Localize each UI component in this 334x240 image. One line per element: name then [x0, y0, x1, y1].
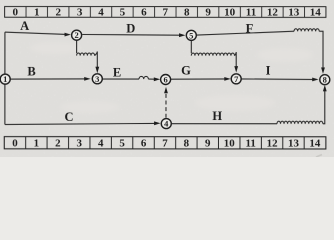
node 7: [231, 74, 241, 84]
arrowhead B into node 3: [84, 77, 90, 81]
dummy dashed from node 4 up to node 6: [165, 91, 167, 118]
svg-text:2: 2: [74, 30, 78, 40]
wire: activity I from node 7 to node 8: [242, 78, 314, 81]
svg-text:I: I: [266, 64, 271, 78]
float wave on activity E: [139, 76, 148, 79]
svg-text:5: 5: [119, 138, 125, 150]
svg-text:12: 12: [267, 138, 279, 150]
svg-text:A: A: [20, 19, 29, 33]
svg-text:E: E: [113, 65, 121, 79]
svg-text:8: 8: [323, 75, 327, 85]
wire: left vertical from node 1 up to activity A level and down to activity C level: [4, 32, 6, 124]
page corner mark bottom right: [316, 155, 322, 158]
svg-text:6: 6: [141, 7, 147, 19]
float wave from node 5 toward node 7: [191, 53, 234, 56]
svg-text:C: C: [64, 110, 73, 124]
arrowhead F down into node 8: [321, 67, 325, 73]
wire: float drop from node 5: [190, 41, 192, 54]
svg-text:2: 2: [55, 7, 61, 19]
svg-text:14: 14: [310, 7, 322, 19]
node 1: [0, 74, 10, 84]
svg-text:2: 2: [55, 138, 61, 150]
wire: activity E tail into node 6: [148, 78, 155, 80]
float wave on activity H: [277, 121, 323, 124]
svg-text:H: H: [212, 109, 222, 123]
arrowhead down into node 7: [234, 66, 238, 72]
scanned page background: [0, 0, 334, 157]
svg-text:1: 1: [34, 138, 40, 150]
svg-text:13: 13: [288, 7, 300, 19]
arrowhead A into node 2: [65, 33, 71, 37]
svg-text:5: 5: [120, 7, 126, 19]
svg-text:0: 0: [12, 138, 18, 150]
svg-text:5: 5: [189, 30, 193, 40]
wire: activity A from node 1 to node 2: [5, 32, 66, 34]
arrowhead dummy up into node 6: [164, 87, 168, 93]
node 6: [161, 74, 171, 84]
node 3: [92, 74, 102, 84]
svg-text:10: 10: [224, 138, 236, 150]
node 4: [161, 119, 171, 129]
arrowhead D into node 5: [179, 33, 185, 37]
float wave from node 2 toward node 3: [77, 53, 95, 56]
svg-text:7: 7: [234, 74, 239, 84]
top ruler cell dividers: [26, 7, 305, 18]
svg-text:D: D: [126, 22, 135, 36]
bottom time-scale ruler frame: [4, 137, 326, 149]
wire: activity H solid part from node 4: [172, 123, 277, 125]
arrowhead H up into node 8: [323, 85, 327, 91]
arrowhead E into node 6: [154, 77, 160, 81]
svg-text:3: 3: [95, 74, 99, 84]
svg-text:11: 11: [246, 7, 256, 19]
arrowhead I into node 8: [312, 78, 318, 82]
svg-text:8: 8: [184, 138, 190, 150]
arrowhead down into node 3: [95, 67, 99, 73]
svg-text:12: 12: [267, 7, 279, 19]
svg-text:3: 3: [77, 138, 83, 150]
wire: activity D from node 2 to node 5: [82, 33, 180, 36]
svg-text:4: 4: [98, 7, 104, 19]
svg-text:3: 3: [77, 7, 83, 19]
svg-text:1: 1: [34, 7, 40, 19]
arrowhead C into node 4: [154, 121, 160, 125]
wire: activity C from node 1 corner to node 4: [5, 123, 155, 124]
top ruler numbers 0-14: [13, 7, 322, 19]
wire: drop into node 7: [235, 52, 237, 67]
top time-scale ruler frame: [5, 7, 326, 18]
wire: drop into node 3: [95, 51, 98, 68]
wire: H riser up into node 8: [323, 90, 325, 124]
svg-text:4: 4: [164, 119, 169, 129]
svg-text:14: 14: [309, 138, 321, 150]
svg-text:G: G: [181, 64, 191, 78]
svg-text:1: 1: [3, 74, 7, 84]
svg-text:8: 8: [184, 7, 190, 19]
wire: activity B from node 1 to node 3: [10, 78, 85, 80]
bottom ruler numbers 0-14: [12, 138, 321, 150]
svg-text:9: 9: [205, 138, 211, 150]
svg-text:6: 6: [141, 138, 147, 150]
svg-text:11: 11: [245, 138, 255, 150]
wire: F drop down into node 8: [319, 31, 323, 68]
node 2: [72, 30, 82, 40]
svg-text:7: 7: [162, 138, 168, 150]
svg-text:0: 0: [13, 7, 19, 19]
wire: float drop from node 2: [76, 40, 78, 53]
wire: activity E solid part from node 3: [102, 78, 139, 80]
svg-text:4: 4: [98, 138, 104, 150]
svg-text:F: F: [246, 22, 254, 36]
svg-text:9: 9: [205, 7, 211, 19]
svg-text:10: 10: [224, 7, 236, 19]
bottom ruler cell dividers: [26, 137, 305, 149]
node 5: [186, 30, 196, 40]
svg-text:6: 6: [163, 74, 167, 84]
wire: activity F solid part from node 5: [197, 31, 294, 35]
svg-text:B: B: [27, 64, 35, 78]
wire: activity G from node 6 to node 7: [171, 78, 226, 80]
svg-text:7: 7: [163, 7, 169, 19]
node 8: [320, 75, 330, 85]
float wave on activity F: [294, 29, 319, 32]
arrowhead G into node 7: [224, 77, 230, 81]
svg-text:13: 13: [288, 138, 300, 150]
